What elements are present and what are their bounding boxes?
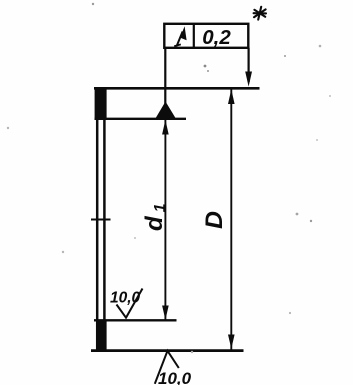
axis tick — [91, 218, 111, 220]
svg-text:10,0: 10,0 — [158, 369, 192, 385]
svg-text:10,0: 10,0 — [110, 290, 141, 307]
datum triangle — [155, 102, 177, 120]
roughness mark inner surface — [117, 289, 143, 318]
bottom edge (surface D) — [91, 349, 244, 352]
D arrow down — [228, 335, 235, 349]
leader arrowhead — [245, 72, 252, 87]
d1 arrow down — [162, 306, 169, 320]
left wall inner line — [103, 88, 106, 351]
svg-text:D: D — [201, 211, 228, 229]
roughness mark bottom surface — [155, 351, 179, 384]
top edge (surface D) — [94, 87, 260, 90]
leader line from frame to toleranced surface — [248, 48, 250, 82]
inner bottom line (surface d1) — [94, 319, 177, 321]
inner top line (surface d1) — [95, 118, 187, 120]
D arrow up — [228, 89, 235, 104]
dimension line d1 — [164, 120, 166, 320]
d1 arrow up — [162, 120, 169, 135]
leader line from frame to datum — [164, 48, 166, 104]
left wall outer line — [96, 88, 99, 351]
tolerance frame — [164, 24, 248, 48]
section fill bottom — [96, 320, 106, 351]
section fill top — [95, 87, 107, 120]
runout symbol — [174, 26, 186, 46]
svg-text:d1: d1 — [141, 203, 169, 231]
svg-text:0,2: 0,2 — [202, 26, 231, 49]
asterisk — [254, 7, 266, 20]
dimension line D — [230, 90, 232, 350]
